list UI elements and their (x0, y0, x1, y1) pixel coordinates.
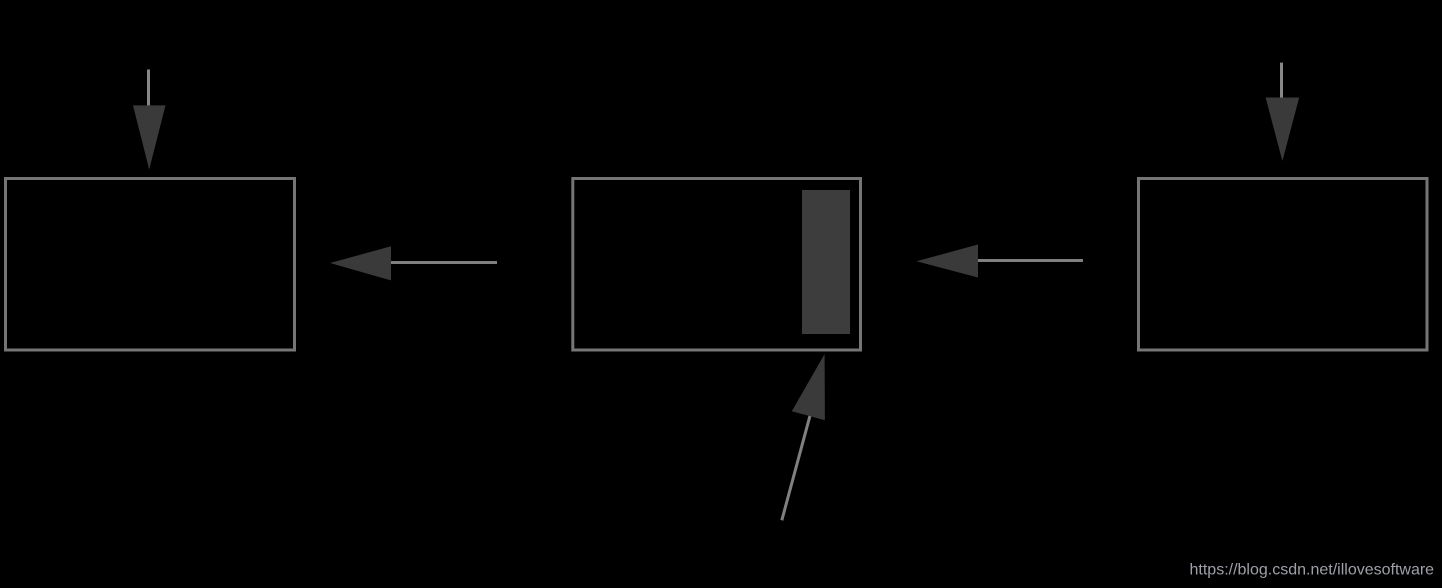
arrow down-right: head (1266, 98, 1300, 162)
arrow right-to-mid: shaft (978, 259, 1083, 262)
box middle (573, 179, 861, 351)
arrow down-left: head (133, 105, 166, 169)
box right (1139, 179, 1428, 351)
arrow mid-to-left: shaft (391, 261, 497, 264)
arrow down-right: shaft (1280, 63, 1283, 98)
svg-text:https://blog.csdn.net/illoveso: https://blog.csdn.net/illovesoftware (1190, 562, 1435, 579)
arrow diagonal: head (792, 354, 825, 420)
arrow mid-to-left: head (330, 246, 391, 280)
box left (6, 179, 295, 351)
arrow right-to-mid: head (916, 245, 978, 278)
arrow diagonal: shaft (782, 416, 810, 521)
inner rect (highlight bar in middle box) (802, 190, 850, 334)
arrow down-left: shaft (147, 70, 150, 106)
